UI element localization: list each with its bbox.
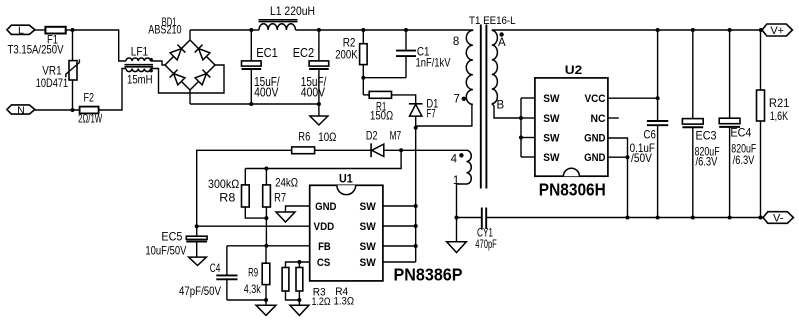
wire VDD node up to R6	[197, 150, 292, 226]
label 1.3ohm	[334, 296, 355, 308]
wire R8 bottom jog	[245, 207, 266, 218]
BD1 diode bottom-left	[170, 70, 185, 85]
label EC3 value	[695, 145, 720, 169]
U1 pin FB label	[318, 241, 331, 253]
svg-text:10uF/50V: 10uF/50V	[145, 244, 186, 258]
wire V+ rail end	[761, 29, 762, 31]
bridge BD1 diamond outline	[165, 40, 215, 90]
wire D1 anode to drain node	[415, 116, 417, 128]
label PN8386P	[394, 264, 463, 284]
BD1 diode top-right	[195, 45, 210, 60]
U2 pin GND label 2	[584, 152, 605, 164]
VDD rail	[197, 225, 310, 227]
wire R9 top lead	[265, 246, 267, 263]
svg-text:L1 220uH: L1 220uH	[270, 4, 315, 18]
U2 GND pin wires	[608, 138, 628, 157]
wire R6 to D2	[315, 149, 372, 151]
svg-text:SW: SW	[543, 113, 560, 125]
svg-text:1,6K: 1,6K	[770, 109, 788, 123]
label R3	[313, 286, 326, 298]
ground U1 GND	[276, 212, 295, 222]
ground R3/R4	[290, 305, 309, 315]
IC U1 body	[310, 185, 383, 281]
wire V- rail end	[761, 217, 764, 219]
svg-text:V+: V+	[770, 25, 784, 37]
wire C1 bottom to R2	[363, 77, 406, 79]
wire R8 top lead	[244, 169, 246, 185]
U2 SW bus	[520, 98, 522, 157]
T1 pin A label	[498, 37, 506, 49]
node U2 GND on V- rail	[626, 216, 630, 220]
svg-text:V-: V-	[773, 212, 784, 224]
label 0.1uF	[630, 141, 655, 155]
capacitor C6	[647, 30, 668, 218]
node EC2 bottom	[317, 102, 321, 106]
U1 pin GND label	[315, 201, 336, 213]
svg-text:2Ω/1W: 2Ω/1W	[78, 112, 103, 126]
T1 pin B label	[497, 100, 505, 112]
wire R7 bottom to FB rail	[265, 207, 267, 246]
svg-text:SW: SW	[360, 241, 377, 253]
label ABS210	[148, 23, 182, 37]
node EC3 bottom	[691, 216, 695, 220]
label EC1	[256, 46, 278, 60]
label 10D471	[36, 76, 69, 90]
label EC2	[293, 46, 315, 60]
wire F2 to LF1 bottom	[99, 69, 126, 111]
capacitor EC1	[242, 30, 262, 104]
ground CY1	[447, 242, 467, 253]
node VDD/EC5 junction	[195, 224, 199, 228]
label 470pF	[475, 237, 497, 251]
svg-text:R7: R7	[274, 191, 286, 205]
resistor R6	[292, 147, 315, 154]
wire EC1 node to L1	[251, 29, 259, 31]
node aux/divider junction	[399, 148, 403, 152]
node U2 SW stub 3	[519, 136, 523, 140]
wire F1 to node	[66, 29, 73, 31]
wire R2 top lead	[362, 30, 364, 44]
svg-text:10D471: 10D471	[36, 76, 69, 90]
svg-text:4,3k: 4,3k	[244, 282, 262, 296]
T1 pin 4 label	[451, 153, 458, 165]
node R9/C4 bottom junction	[264, 298, 268, 302]
label R21	[769, 96, 790, 110]
label U2	[565, 63, 583, 77]
label EC4	[730, 126, 751, 140]
node EC1 top	[249, 28, 253, 32]
svg-text:PN8386P: PN8386P	[394, 264, 463, 284]
node VR1/N junction	[71, 108, 75, 112]
label R4	[335, 286, 348, 298]
U2 pin VCC label	[585, 93, 606, 105]
CS rail to R3	[286, 262, 310, 268]
node aux-gnd/CY1 junction	[455, 216, 459, 220]
label C6	[644, 127, 657, 141]
label C1	[417, 45, 430, 59]
resistor R2	[360, 44, 368, 65]
U2 NC pin stub	[608, 117, 619, 119]
wire T1 secondary top to V+ rail	[492, 29, 762, 31]
svg-text:470pF: 470pF	[475, 237, 497, 251]
label U1	[339, 172, 353, 186]
svg-text:T1 EE16-L: T1 EE16-L	[469, 15, 516, 27]
transformer T1 aux winding	[467, 150, 472, 184]
node R2 top	[361, 28, 365, 32]
label 1.2ohm	[312, 296, 331, 308]
U1 pin CS label	[317, 257, 330, 269]
resistor R9	[262, 263, 270, 284]
node F1/VR1 junction	[71, 28, 75, 32]
svg-text:SW: SW	[360, 221, 377, 233]
terminal N (mains neutral input)	[7, 104, 35, 116]
svg-text:/6.3V: /6.3V	[733, 153, 755, 167]
wire R2 to R1	[363, 94, 369, 96]
node R21 bottom junction	[759, 216, 763, 220]
svg-text:NC: NC	[591, 113, 606, 125]
wire L to F1	[35, 29, 46, 31]
svg-text:SW: SW	[543, 93, 560, 105]
label EC1 value	[254, 75, 280, 100]
node EC4 top	[728, 28, 732, 32]
label T3.15A/250V	[8, 43, 64, 57]
label 15mH	[127, 73, 153, 87]
svg-text:U1: U1	[339, 172, 353, 186]
wire bridge bottom to DC- rail	[189, 90, 191, 104]
node CS/R4 junction	[297, 260, 301, 264]
node R3/R4 bottom junction	[297, 298, 301, 302]
BD1 diode top-left	[170, 45, 185, 60]
resistor F2 (fusible)	[80, 107, 99, 114]
transformer T1 primary winding	[466, 30, 473, 104]
label 150ohm	[370, 109, 393, 123]
resistor R7	[263, 185, 271, 207]
U2 SW pin stubs	[521, 98, 535, 157]
svg-text:/50V: /50V	[631, 151, 652, 165]
U1 SW bus	[415, 128, 417, 262]
wire DC- rail	[190, 103, 319, 105]
svg-text:R8: R8	[219, 191, 235, 205]
svg-text:C6: C6	[644, 127, 657, 141]
svg-text:7: 7	[454, 93, 460, 105]
wire VR1 bottom	[72, 80, 74, 110]
capacitor EC5	[186, 226, 207, 257]
node drain junction	[414, 126, 418, 130]
T1 core	[481, 25, 487, 189]
wire DC+ rail to EC1	[190, 29, 251, 31]
transformer T1 secondary winding	[492, 30, 498, 103]
label R8	[219, 191, 235, 205]
svg-text:1.3Ω: 1.3Ω	[334, 296, 355, 308]
label R6	[298, 130, 310, 144]
resistor R3	[282, 268, 289, 292]
svg-text:D2: D2	[366, 129, 378, 143]
capacitor EC2	[309, 30, 329, 104]
node EC2 top	[317, 28, 321, 32]
label BD1	[162, 15, 177, 29]
capacitor EC4	[719, 30, 740, 218]
label 4,3k	[244, 282, 262, 296]
T1 pin 7 label	[454, 93, 460, 105]
node U2 GND junction	[626, 155, 630, 159]
U2 pin NC label	[591, 113, 606, 125]
T1 pin 1 label	[453, 175, 459, 187]
wire R4 bottom lead	[298, 291, 300, 305]
inductor LF1 top winding	[126, 58, 151, 61]
U2 pin SW labels	[543, 93, 560, 164]
wire R3 bottom jog	[286, 291, 300, 300]
label R9	[248, 266, 258, 280]
wire R2 node to C1 node	[363, 29, 406, 31]
svg-text:/6.3V: /6.3V	[696, 155, 718, 169]
svg-text:LF1: LF1	[131, 45, 149, 59]
wire drain to T1 pin7	[416, 105, 472, 127]
svg-text:EC1: EC1	[256, 46, 278, 60]
wire divider tap down-left	[245, 150, 401, 168]
node C6 bottom	[656, 216, 660, 220]
svg-text:GND: GND	[584, 132, 605, 144]
label EC2 value	[301, 75, 327, 100]
FB rail	[227, 245, 310, 247]
svg-text:VDD: VDD	[314, 221, 335, 233]
wire bridge top to DC+ rail	[189, 30, 191, 40]
wire N to F2	[35, 109, 80, 111]
svg-text:8: 8	[453, 36, 459, 48]
svg-text:F2: F2	[84, 91, 95, 105]
label 1,6K	[770, 109, 788, 123]
wire VR1 top	[72, 30, 74, 61]
wire EC2 node to R2 node	[319, 29, 363, 31]
svg-text:A: A	[498, 37, 506, 49]
U1 pin SW labels	[360, 201, 377, 269]
U2 VCC pin wire	[608, 97, 658, 99]
svg-text:N: N	[17, 104, 25, 116]
svg-text:CS: CS	[317, 257, 330, 269]
T1 pin A dot	[499, 32, 503, 36]
label 47pF/50V	[179, 284, 221, 298]
svg-text:400V: 400V	[301, 85, 326, 99]
label D1	[426, 97, 438, 111]
svg-text:B: B	[497, 100, 505, 112]
wire CY1 node to ground	[456, 218, 458, 242]
svg-text:SW: SW	[543, 132, 560, 144]
node SW stub 2	[414, 224, 418, 228]
node SW stub 3	[414, 244, 418, 248]
svg-text:SW: SW	[543, 152, 560, 164]
wire R9 bottom lead	[265, 285, 267, 306]
LF1 bottom winding phase dot	[150, 69, 153, 72]
T1 pin 4 dot	[459, 153, 463, 157]
svg-text:VCC: VCC	[585, 93, 606, 105]
wire C1 node to T1 pin8	[406, 29, 473, 31]
label T1 EE16-L	[469, 15, 516, 27]
T1 pin 8 label	[453, 36, 459, 48]
capacitor C1	[396, 30, 416, 78]
label F2	[84, 91, 95, 105]
label M7	[390, 128, 402, 142]
terminal V+	[762, 24, 792, 37]
wire U2 GND to V- rail	[627, 157, 629, 217]
varistor VR1	[66, 59, 80, 80]
svg-text:C4: C4	[210, 261, 221, 275]
node U2 SW stub 2	[519, 116, 523, 120]
LF1 top winding phase dot	[150, 58, 153, 61]
svg-text:10Ω: 10Ω	[318, 130, 336, 144]
resistor R21	[757, 30, 765, 218]
node R7 top junction	[264, 167, 268, 171]
node EC3 top	[691, 28, 695, 32]
svg-text:400V: 400V	[254, 85, 279, 99]
wire aux bottom to CY1 node	[457, 184, 467, 218]
label CY1	[477, 226, 493, 240]
diode D2	[371, 143, 384, 157]
ground R9	[256, 305, 276, 315]
svg-text:SW: SW	[360, 257, 377, 269]
svg-text:R9: R9	[248, 266, 258, 280]
label VR1	[42, 64, 62, 78]
wire node to LF1 top	[73, 30, 127, 61]
inductor LF1 bottom winding	[126, 69, 151, 72]
wire T1 secondary bottom to U2	[492, 104, 521, 118]
node FB/R9 junction	[264, 244, 268, 248]
svg-text:PN8306H: PN8306H	[539, 180, 606, 200]
capacitor CY1	[457, 208, 764, 230]
label R2	[343, 36, 356, 50]
wire EC2 to ground	[318, 104, 320, 116]
resistor R8	[242, 185, 250, 207]
label EC5	[161, 230, 182, 244]
wire LF1 top to bridge left	[151, 61, 166, 65]
label 300kohm	[208, 177, 239, 191]
svg-text:ABS210: ABS210	[148, 23, 182, 37]
svg-text:47pF/50V: 47pF/50V	[179, 284, 221, 298]
label EC4 value	[731, 142, 756, 168]
node C6 top	[656, 28, 660, 32]
svg-text:F7: F7	[426, 107, 436, 121]
inductor L1	[259, 20, 298, 30]
wire R2 bottom lead	[362, 65, 364, 95]
ground primary DC-	[310, 116, 328, 125]
node VCC/C6 junction	[656, 96, 660, 100]
wire R1 to D1	[392, 95, 416, 104]
svg-text:24kΩ: 24kΩ	[275, 176, 298, 190]
terminal V-	[763, 212, 793, 225]
node EC4 bottom	[728, 216, 732, 220]
label C4	[210, 261, 221, 275]
svg-text:EC2: EC2	[293, 46, 315, 60]
IC U2 body	[535, 78, 608, 176]
wire LF1 bottom to bridge right	[151, 65, 225, 93]
label L1 220uH	[270, 4, 315, 18]
label R1	[376, 100, 387, 114]
capacitor C4	[216, 246, 237, 300]
svg-text:L: L	[18, 25, 24, 37]
svg-text:U2: U2	[565, 63, 583, 77]
U1 SW pin stubs	[383, 206, 416, 262]
svg-text:200K: 200K	[335, 48, 358, 62]
svg-text:R21: R21	[769, 96, 790, 110]
svg-text:FB: FB	[318, 241, 331, 253]
label R7	[274, 191, 286, 205]
label 10uF/50V	[145, 244, 186, 258]
label EC3	[696, 129, 717, 143]
svg-text:1nF/1kV: 1nF/1kV	[416, 56, 451, 70]
node SW stub 1	[414, 204, 418, 208]
wire R4 top lead	[298, 262, 300, 268]
node R2/C1 junction	[361, 76, 365, 80]
U1 pin VDD label	[314, 221, 335, 233]
label F1	[47, 33, 58, 47]
svg-text:M7: M7	[390, 128, 402, 142]
svg-text:GND: GND	[584, 152, 605, 164]
svg-text:15mH: 15mH	[127, 73, 153, 87]
LF1 core lines	[125, 65, 154, 67]
svg-text:300kΩ: 300kΩ	[208, 177, 239, 191]
svg-text:EC3: EC3	[696, 129, 717, 143]
label 200K	[335, 48, 358, 62]
svg-text:R6: R6	[298, 130, 310, 144]
wire D2 to T1 pin4	[384, 149, 467, 151]
capacitor EC3	[682, 30, 703, 218]
label 2ohm/1W	[78, 112, 103, 126]
node R21 top	[759, 28, 763, 32]
svg-text:T3.15A/250V: T3.15A/250V	[8, 43, 64, 57]
label 1nF/1kV	[416, 56, 451, 70]
svg-text:4: 4	[451, 153, 458, 165]
label 24kohm	[275, 176, 298, 190]
svg-text:EC5: EC5	[161, 230, 182, 244]
svg-text:EC4: EC4	[730, 126, 751, 140]
label /50V	[631, 151, 652, 165]
svg-text:GND: GND	[315, 201, 336, 213]
resistor R1	[369, 91, 391, 98]
label F7	[426, 107, 436, 121]
U1 GND pin wire to ground	[286, 206, 310, 212]
svg-text:1.2Ω: 1.2Ω	[312, 296, 331, 308]
T1 pin 7 dot	[462, 97, 466, 101]
wire L1 to EC2 node	[296, 29, 319, 31]
U2 pin GND label 1	[584, 132, 605, 144]
wire R7 top lead	[265, 169, 267, 185]
resistor R4	[296, 268, 303, 292]
fuse F1	[45, 27, 65, 34]
label 10ohm	[318, 130, 336, 144]
diode D1	[409, 104, 423, 116]
node EC1 bottom	[249, 102, 253, 106]
wire C4 bottom to R9 bottom	[227, 299, 266, 301]
node R8/R7 bottom junction	[264, 216, 268, 220]
svg-text:SW: SW	[360, 201, 377, 213]
terminal L (mains live input)	[7, 25, 35, 37]
label PN8306H	[539, 180, 606, 200]
ground EC5	[189, 257, 207, 265]
svg-text:150Ω: 150Ω	[370, 109, 393, 123]
node C1 top	[404, 28, 408, 32]
BD1 diode bottom-right	[195, 70, 210, 85]
label LF1	[131, 45, 149, 59]
label D2	[366, 129, 378, 143]
